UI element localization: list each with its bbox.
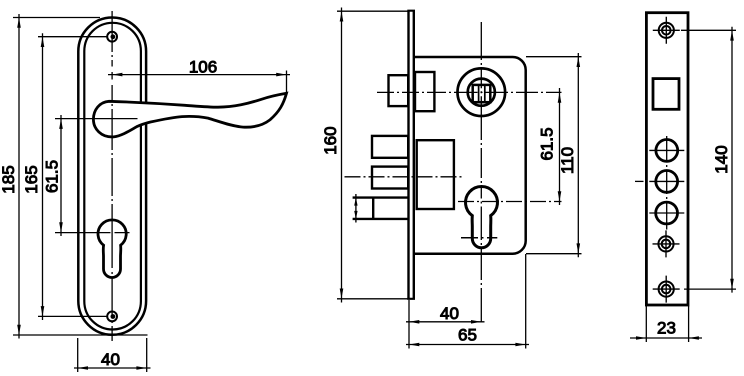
left view: top screw hole [107,32,117,42]
left view: handle backplate outer outline [78,18,146,335]
svg-text:110: 110 [558,147,577,174]
svg-text:185: 185 [0,165,18,193]
svg-text:165: 165 [22,165,41,193]
middle view: deadbolt lower lamination with head line [353,198,409,219]
svg-text:140: 140 [712,145,731,173]
middle view: spindle square hole [473,85,491,102]
middle view: cylinder slot cross line [461,237,497,239]
svg-text:23: 23 [657,319,676,338]
middle view: cylinder horizontal centerline [458,201,562,203]
middle view: latch bolt outside part [389,75,409,106]
middle view: lock case body [415,57,526,254]
middle view: latch and hub horizontal centerline [377,91,562,93]
svg-text:40: 40 [440,304,459,323]
right view: mid-height tick [635,180,644,182]
middle view: spindle hub outer circle [458,68,506,116]
middle view: hub vertical centerline [480,22,482,322]
svg-text:106: 106 [189,58,217,77]
middle view: lock faceplate strip [409,11,414,299]
middle view: deadbolt housing inside case [417,140,454,209]
middle view: deadbolt middle lamination [372,167,408,189]
right view: hole circle 3 [656,202,678,224]
right view: middle fixing screw [658,236,673,251]
right view: bottom fixing screw [659,282,674,297]
middle view: dimension 110 [526,56,582,58]
left view: dimension 61.5 [60,115,62,236]
left view: dimension 165 [38,36,107,38]
right view: circles vertical centerline [666,136,668,230]
left view: lever handle [93,93,286,137]
left view: cylinder horizontal centerline [55,232,130,234]
middle view: dimension 65 [525,254,527,349]
left view: dimension 106 [108,74,290,76]
left view: handle backplate inner outline [84,23,141,330]
left view: bottom screw hole [107,312,117,322]
right view: dimension 23 [645,306,647,342]
right view: hole circle 2 [656,171,678,193]
middle view: deadbolt horizontal centerline [345,176,463,178]
middle view: euro cylinder keyhole [466,187,498,248]
left view: vertical centerline [111,11,113,341]
left view: euro cylinder keyhole [98,220,126,278]
middle view: latch follower box inside case [415,72,434,111]
svg-text:40: 40 [101,350,120,369]
left view: dimension 185 [13,17,100,19]
right view: spindle square cutout [653,79,679,110]
middle view: deadbolt upper lamination [372,136,408,158]
middle view: spindle hub inner circle [468,79,495,106]
right view: dimension 140 [681,29,736,31]
middle view: dimension 40 backset [408,300,410,349]
svg-text:65: 65 [458,326,477,345]
middle view: dimension 160 [337,10,408,12]
svg-text:160: 160 [321,126,340,154]
middle view: deadbolt height dimension arrows [355,194,357,223]
left view: handle horizontal centerline [55,118,138,120]
middle view: dimension 61.5 [559,88,561,205]
svg-text:61.5: 61.5 [42,160,61,193]
left view: dimension 40 [77,338,79,372]
svg-text:61.5: 61.5 [538,127,557,160]
right view: top fixing screw [659,23,674,38]
right view: strike faceplate outline [646,13,688,305]
right view: hole circle 1 [656,140,678,162]
